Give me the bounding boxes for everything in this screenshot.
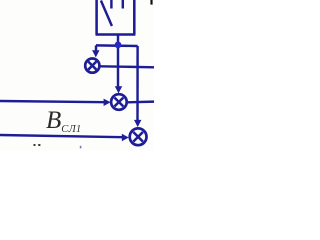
cropped text specks bottom bbox=[34, 144, 36, 146]
wire: right corner down to multiplier M3 (vertical) bbox=[136, 46, 139, 121]
wire: block output down to node A bbox=[117, 35, 119, 46]
arrowhead into M3 top bbox=[134, 120, 141, 127]
arrowhead into M2 top bbox=[115, 86, 122, 93]
multiplier M3 X bbox=[133, 132, 143, 142]
block U1 symbol: diagonal stroke bbox=[101, 1, 112, 27]
multiplier M3 circle bbox=[130, 128, 147, 145]
multiplier M1 X bbox=[88, 62, 96, 70]
block U1: right edge bbox=[133, 0, 136, 35]
block U1: bottom edge bbox=[96, 33, 136, 36]
node A junction dot bbox=[115, 42, 122, 49]
wire: M1 output to right edge (line B) bbox=[100, 66, 154, 67]
wire: horizontal bus from left corner to right corner (line A) bbox=[96, 44, 138, 47]
block U1 symbol: tick 1 bbox=[110, 0, 112, 9]
wire: input line into M2 from left edge (line C left) bbox=[0, 101, 105, 102]
wire: drop into multiplier M1 bbox=[95, 45, 97, 52]
arrowhead into M2 left bbox=[104, 99, 111, 106]
value label B_CL1 bbox=[46, 108, 81, 144]
multiplier M2 X bbox=[115, 98, 124, 107]
multiplier M2 circle bbox=[111, 94, 127, 110]
cropped text fragment top-right bbox=[150, 0, 152, 5]
block U1 (cropped at top): left edge bbox=[95, 0, 98, 35]
wire: input line B_CL1 into M3 from left edge (line E) bbox=[0, 135, 123, 137]
wire: M2 output to right edge (line C right) bbox=[127, 100, 154, 103]
arrowhead into M3 left bbox=[122, 134, 129, 141]
wire: node A to multiplier M2 (vertical) bbox=[117, 45, 119, 87]
block U1 symbol: tick 2 bbox=[122, 0, 124, 9]
multiplier M1 circle bbox=[85, 59, 99, 73]
arrowhead into M1 top bbox=[92, 50, 99, 57]
